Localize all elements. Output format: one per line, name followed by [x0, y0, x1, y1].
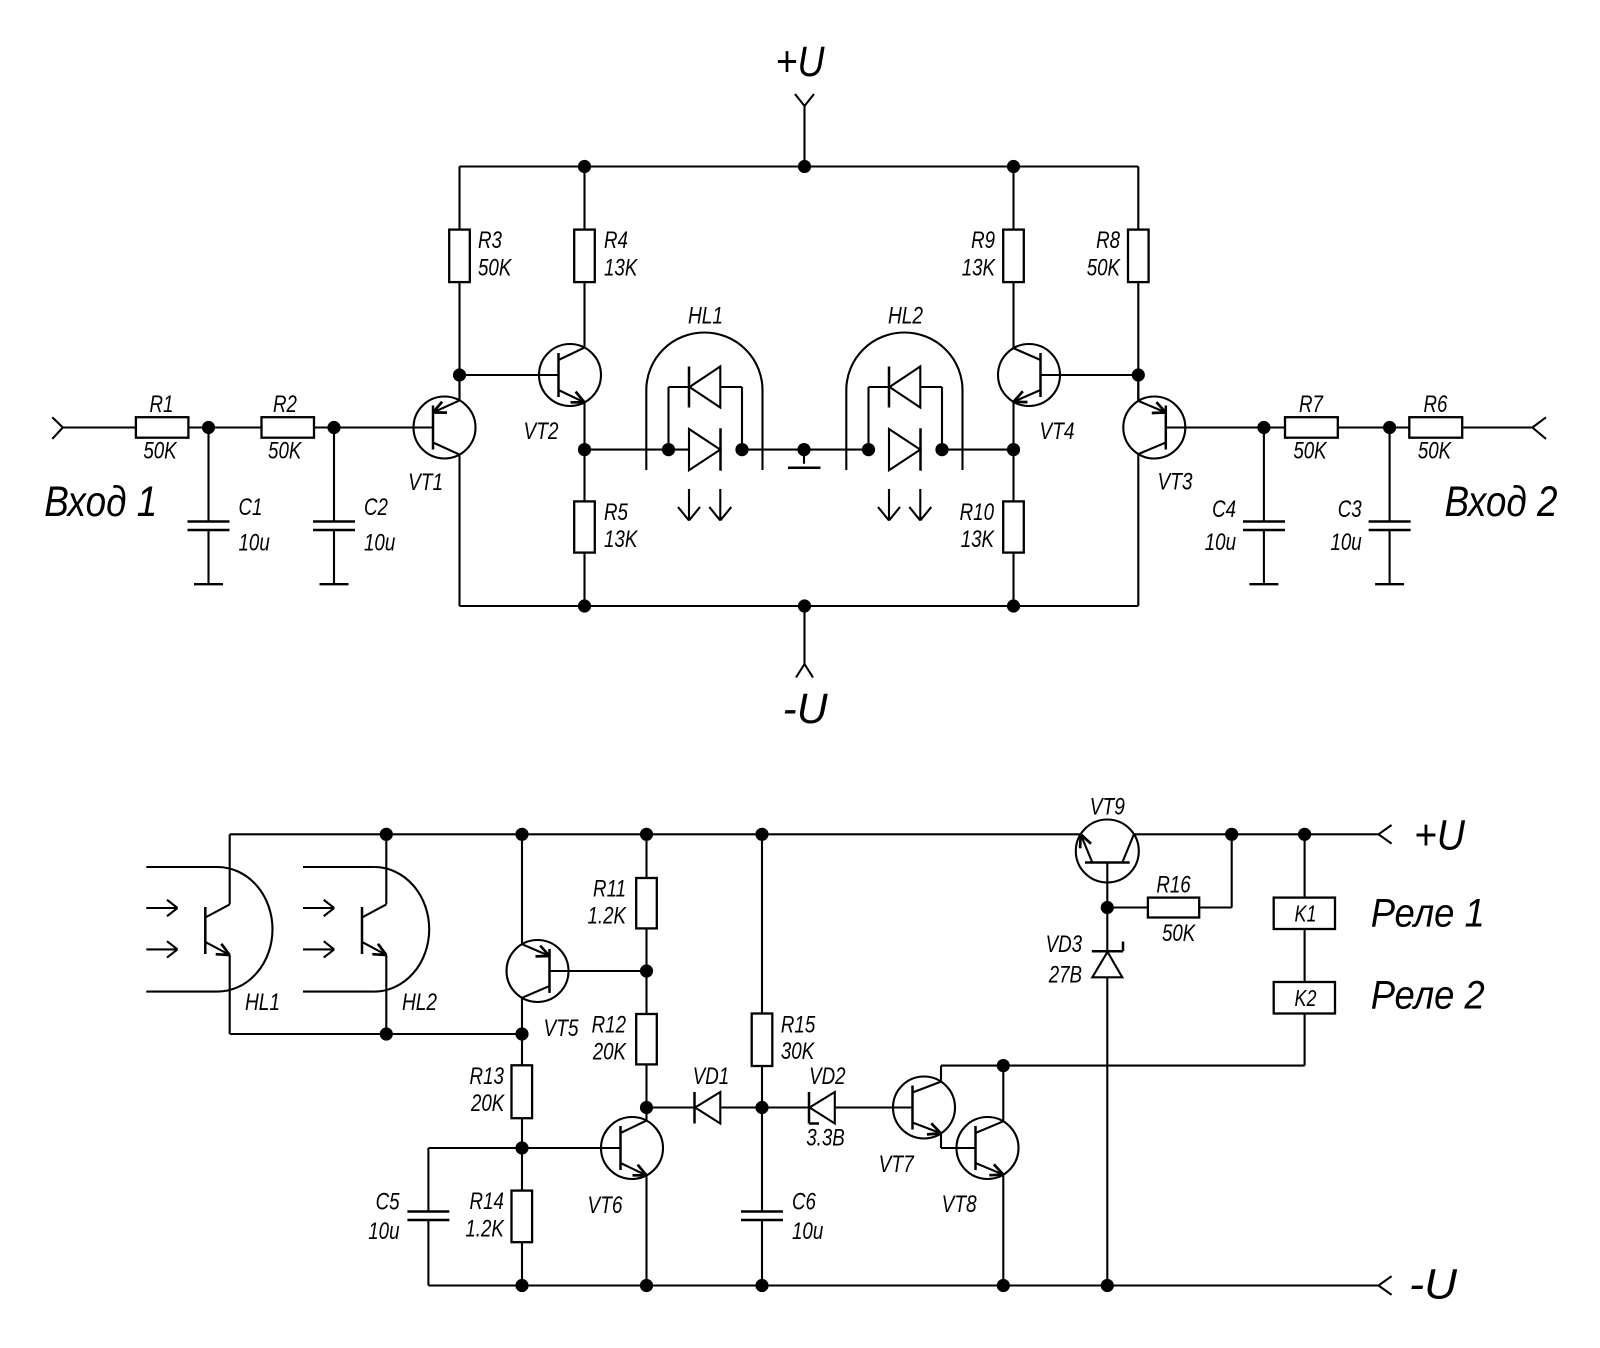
svg-text:50K: 50K — [268, 437, 303, 464]
svg-text:R10: R10 — [960, 499, 994, 526]
wire R8 to VT3 node — [1137, 282, 1139, 401]
wire R9 to VT4 — [1012, 282, 1014, 348]
relay coil K1 — [1274, 898, 1335, 929]
resistor R8 — [1087, 227, 1149, 282]
node VT9 base — [1101, 901, 1114, 914]
svg-text:R5: R5 — [604, 499, 629, 526]
svg-text:30K: 30K — [781, 1038, 816, 1065]
node HL1 right — [735, 443, 748, 456]
wire R3 to VT1 node — [458, 282, 460, 401]
optocoupler HL1 phototransistor — [146, 834, 280, 1034]
svg-text:VT2: VT2 — [523, 417, 558, 445]
connector -U right — [1379, 1261, 1458, 1309]
wire R8 top — [1137, 167, 1139, 230]
wire VT7 collector up — [940, 1066, 942, 1082]
label Вход 2 — [1445, 479, 1558, 526]
svg-text:27В: 27В — [1048, 961, 1082, 988]
node R11-R12 — [640, 964, 653, 977]
resistor R2 — [262, 391, 315, 464]
wire HL1 to ground — [742, 449, 869, 451]
wire VT7 emitter to VT8 base — [941, 1133, 976, 1148]
wire R2 to VT1 — [314, 426, 433, 428]
wire VD2 right — [835, 1106, 894, 1108]
svg-text:K1: K1 — [1295, 901, 1317, 927]
node VD3 bottom — [1101, 1279, 1114, 1292]
optocoupler HL2 phototransistor — [303, 834, 437, 1034]
wire relay row — [941, 1065, 1305, 1067]
svg-text:C2: C2 — [364, 494, 388, 521]
wire R4 to VT2 — [583, 282, 585, 348]
wire VT4 emitter down — [1012, 402, 1014, 449]
svg-text:13K: 13K — [604, 254, 639, 281]
wire R13 top — [521, 1034, 523, 1065]
diode VD3 zener — [1046, 908, 1123, 989]
svg-text:R2: R2 — [273, 391, 297, 418]
capacitor C4 — [1205, 428, 1285, 585]
svg-text:R4: R4 — [604, 227, 628, 254]
svg-text:R16: R16 — [1156, 871, 1190, 898]
svg-text:-U: -U — [783, 685, 829, 733]
transistor VT7 — [879, 1077, 955, 1178]
svg-text:50K: 50K — [1418, 437, 1453, 464]
svg-text:R11: R11 — [593, 875, 626, 902]
svg-text:10u: 10u — [364, 529, 395, 556]
node VT6 base node — [515, 1141, 528, 1154]
svg-text:Реле 2: Реле 2 — [1371, 974, 1485, 1018]
resistor R15 — [752, 1011, 816, 1066]
svg-text:VT5: VT5 — [543, 1014, 579, 1042]
wire +U rail — [460, 165, 1139, 167]
svg-text:K2: K2 — [1295, 986, 1317, 1012]
input connector 1 — [52, 417, 63, 439]
transistor VT3 — [1123, 397, 1193, 496]
node R11 top — [640, 828, 653, 841]
svg-text:10u: 10u — [1330, 529, 1361, 556]
wire VT5 base right — [550, 970, 647, 972]
wire VD1 right — [720, 1106, 762, 1108]
svg-text:C3: C3 — [1338, 496, 1362, 523]
svg-text:R15: R15 — [781, 1011, 816, 1038]
node VT8 emitter bottom — [997, 1279, 1010, 1292]
svg-text:R7: R7 — [1299, 391, 1324, 418]
wire R1 to node — [188, 426, 261, 428]
wire VD3 down — [1106, 977, 1108, 1285]
svg-text:VT4: VT4 — [1039, 417, 1074, 445]
wire R12 bottom — [645, 1064, 647, 1107]
capacitor C5 — [368, 1148, 522, 1286]
svg-text:VT9: VT9 — [1090, 792, 1125, 820]
node R9 rail — [1007, 160, 1020, 173]
svg-text:10u: 10u — [792, 1218, 823, 1245]
svg-text:VT6: VT6 — [587, 1191, 623, 1219]
svg-text:HL1: HL1 — [245, 988, 280, 1016]
svg-text:R13: R13 — [470, 1063, 504, 1090]
svg-text:+U: +U — [776, 38, 826, 86]
svg-text:R1: R1 — [150, 391, 174, 418]
transistor VT6 — [587, 1117, 663, 1219]
wire VT5 emitter up — [521, 834, 523, 944]
wire K2 down — [1304, 1014, 1306, 1066]
svg-text:VT1: VT1 — [408, 468, 443, 496]
node HL2 bottom — [380, 1027, 393, 1040]
node R10 bottom — [1007, 599, 1020, 612]
wire R14 bottom — [521, 1242, 523, 1285]
wire VT2 emitter down — [583, 402, 585, 449]
svg-text:50K: 50K — [143, 437, 178, 464]
svg-text:13K: 13K — [604, 526, 639, 553]
relay coil K2 — [1274, 982, 1335, 1014]
node R5 bottom — [578, 599, 591, 612]
ground — [788, 443, 821, 468]
wire input1 to R1 — [63, 426, 136, 428]
wire R4 top — [583, 167, 585, 230]
wire VT3 collector down — [1137, 454, 1139, 606]
wire R7 to R6 — [1338, 426, 1410, 428]
svg-text:Вход 2: Вход 2 — [1445, 479, 1558, 526]
resistor R16 — [1148, 871, 1199, 946]
diode VD2 zener — [806, 1063, 845, 1151]
wire VT8 collector up — [1002, 1066, 1004, 1122]
node VT5 collector — [515, 1027, 528, 1040]
capacitor C2 — [313, 428, 395, 585]
svg-text:C6: C6 — [792, 1188, 816, 1215]
optocoupler HL2 LEDs — [846, 301, 962, 520]
wire VT1 collector down — [458, 454, 460, 606]
transistor VT9 — [1076, 792, 1139, 907]
resistor R3 — [449, 227, 513, 282]
resistor R5 — [574, 450, 639, 606]
node C3 — [1383, 421, 1396, 434]
power symbol -U — [783, 606, 829, 733]
svg-text:13K: 13K — [961, 526, 996, 553]
wire R15 top — [761, 834, 763, 1013]
node VT4 emitter — [1007, 443, 1020, 456]
wire K1 top — [1304, 834, 1306, 897]
svg-text:C5: C5 — [376, 1188, 401, 1215]
node C1 — [202, 421, 215, 434]
svg-text:C4: C4 — [1212, 496, 1236, 523]
svg-text:C1: C1 — [239, 494, 263, 521]
svg-text:HL2: HL2 — [888, 301, 923, 329]
wire K1 to K2 — [1304, 929, 1306, 982]
wire R9 top — [1012, 167, 1014, 230]
svg-text:50K: 50K — [478, 254, 513, 281]
node R14 bottom — [515, 1279, 528, 1292]
resistor R1 — [136, 391, 189, 464]
wire R3 top — [458, 167, 460, 230]
node VT1-R3 — [453, 368, 466, 381]
svg-text:VT3: VT3 — [1157, 467, 1193, 495]
wire +U rail bottom section — [230, 833, 1379, 835]
optocoupler HL1 LEDs — [646, 301, 762, 520]
resistor R11 — [587, 875, 656, 929]
svg-text:HL1: HL1 — [688, 301, 723, 329]
node -U stub — [798, 599, 811, 612]
svg-text:Реле 1: Реле 1 — [1371, 892, 1485, 936]
output connector 2 — [1532, 417, 1546, 439]
node R16 rail — [1225, 828, 1238, 841]
resistor R14 — [465, 1188, 532, 1242]
wire VD1 left — [647, 1106, 695, 1108]
wire -U rail bottom section — [428, 1284, 1378, 1286]
wire HL bottom — [230, 1033, 522, 1035]
svg-text:10u: 10u — [368, 1218, 399, 1245]
node VT8 collector node — [997, 1059, 1010, 1072]
node VT2 emitter — [578, 443, 591, 456]
svg-text:20K: 20K — [592, 1039, 628, 1066]
wire VT3 base right — [1166, 426, 1285, 428]
wire VT6 base — [522, 1147, 621, 1149]
capacitor C6 — [741, 1108, 823, 1286]
svg-text:R9: R9 — [971, 227, 995, 254]
svg-text:10u: 10u — [239, 529, 270, 556]
wire VT9 base to R16 — [1107, 906, 1148, 908]
node R15 top — [755, 828, 768, 841]
svg-text:50K: 50K — [1087, 254, 1122, 281]
transistor VT4 — [998, 344, 1075, 445]
capacitor C1 — [188, 428, 270, 585]
svg-text:+U: +U — [1414, 812, 1466, 860]
node C6 bottom — [755, 1279, 768, 1292]
svg-text:10u: 10u — [1205, 529, 1236, 556]
wire R6 to output — [1462, 426, 1532, 428]
svg-text:1.2K: 1.2K — [587, 903, 627, 930]
wire VT5 collector down — [521, 997, 523, 1034]
wire HL2 to VT4 — [942, 449, 1014, 451]
power symbol +U — [776, 38, 826, 167]
resistor R12 — [592, 971, 657, 1065]
diode VD1 — [693, 1063, 729, 1124]
svg-text:HL2: HL2 — [402, 988, 437, 1016]
svg-text:50K: 50K — [1162, 920, 1197, 947]
svg-text:VD1: VD1 — [693, 1063, 729, 1090]
svg-text:VT8: VT8 — [942, 1190, 978, 1218]
wire R11 bottom — [645, 928, 647, 971]
svg-text:VD3: VD3 — [1046, 931, 1082, 958]
wire VT6 collector up — [645, 1108, 647, 1122]
label Реле 1 — [1371, 892, 1485, 936]
transistor VT1 — [408, 397, 475, 496]
resistor R4 — [574, 227, 639, 282]
node HL2 left — [862, 443, 875, 456]
svg-text:R14: R14 — [470, 1188, 504, 1215]
svg-text:R3: R3 — [478, 227, 502, 254]
svg-text:20K: 20K — [470, 1090, 506, 1117]
resistor R6 — [1409, 391, 1462, 464]
wire R16 to rail — [1199, 834, 1232, 907]
resistor R9 — [962, 227, 1024, 282]
node +U rail — [798, 160, 811, 173]
svg-text:Вход 1: Вход 1 — [44, 479, 157, 526]
capacitor C3 — [1330, 428, 1410, 585]
wire VT8 emitter down — [1002, 1175, 1004, 1286]
node VD1 left — [640, 1101, 653, 1114]
transistor VT5 — [507, 940, 580, 1042]
node C4 — [1257, 421, 1270, 434]
transistor VT8 — [942, 1117, 1019, 1218]
wire R8 node to VT3 — [1137, 375, 1139, 401]
wire VT1 node to VT2 base — [460, 374, 559, 376]
node VT6 emitter bottom — [640, 1279, 653, 1292]
node R4 rail — [578, 160, 591, 173]
node VT3-R8 — [1132, 368, 1145, 381]
node K1 top — [1298, 828, 1311, 841]
connector +U right — [1379, 812, 1466, 860]
svg-text:R6: R6 — [1424, 391, 1448, 418]
svg-text:R12: R12 — [592, 1011, 626, 1038]
node HL2 top — [380, 828, 393, 841]
svg-text:13K: 13K — [962, 254, 997, 281]
resistor R13 — [470, 1063, 533, 1118]
label Вход 1 — [44, 479, 157, 526]
node R15 bottom — [755, 1101, 768, 1114]
wire VT2 emitter to HL1 — [585, 449, 690, 451]
wire R15 bottom — [761, 1066, 763, 1108]
svg-text:VD2: VD2 — [809, 1063, 845, 1090]
svg-text:3.3В: 3.3В — [806, 1124, 845, 1151]
svg-text:VT7: VT7 — [879, 1150, 915, 1178]
wire -U rail top section — [460, 605, 1139, 607]
node C2 — [327, 421, 340, 434]
wire VT6 emitter down — [645, 1175, 647, 1286]
svg-text:1.2K: 1.2K — [465, 1215, 505, 1242]
wire VD2 left — [762, 1106, 809, 1108]
svg-text:R8: R8 — [1096, 227, 1120, 254]
svg-text:-U: -U — [1409, 1261, 1458, 1309]
node HL2 right — [935, 443, 948, 456]
resistor R7 — [1285, 391, 1338, 464]
node VT5 top — [515, 828, 528, 841]
wire R11 top — [645, 834, 647, 878]
transistor VT2 — [523, 344, 601, 445]
wire VT1 emitter up — [458, 375, 460, 401]
svg-text:50K: 50K — [1293, 437, 1328, 464]
wire VT4 base to VT3 node — [1041, 374, 1139, 376]
node HL1 left — [662, 443, 675, 456]
wire R13 bottom — [521, 1118, 523, 1190]
label Реле 2 — [1371, 974, 1485, 1018]
resistor R10 — [960, 450, 1024, 606]
